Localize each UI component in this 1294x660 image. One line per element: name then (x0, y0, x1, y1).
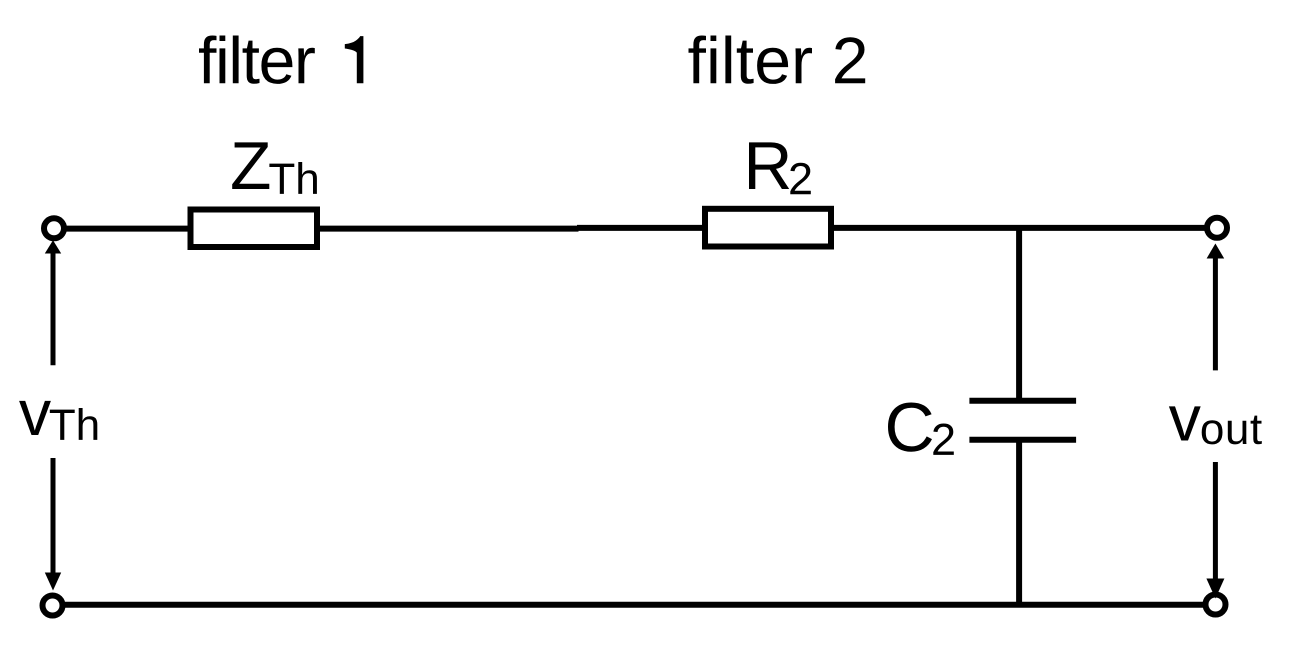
resistor R2 body (705, 209, 831, 247)
arrow vTh upper shaft (51, 253, 56, 366)
arrow vTh upper head (45, 240, 61, 253)
label filter 2 (689, 36, 866, 84)
label vout (1169, 406, 1262, 444)
arrow vTh lower head (45, 573, 61, 591)
label ZTh (232, 142, 317, 194)
label C2 (888, 403, 954, 455)
terminal top-right (1207, 218, 1227, 238)
arrow vout lower shaft (1213, 462, 1218, 580)
arrow vout lower head (1206, 579, 1224, 599)
wire bottom rail (62, 602, 1207, 608)
arrow vTh lower shaft (51, 458, 56, 574)
arrow vout upper shaft (1213, 257, 1218, 370)
wire capacitor bottom lead (1016, 440, 1022, 605)
terminal bottom-left (43, 596, 63, 616)
label R2 (749, 142, 811, 194)
label vTh (19, 401, 97, 440)
wire mid node to R2 (577, 225, 705, 231)
label filter 1 (199, 36, 363, 84)
resistor ZTh body (191, 210, 318, 248)
arrow vout upper head (1207, 244, 1225, 259)
wire R2 to output node (831, 225, 1207, 231)
capacitor C2 bottom plate (969, 437, 1076, 443)
terminal top-left (44, 218, 64, 238)
terminal bottom-right (1206, 595, 1226, 615)
wire ZTh to mid node (317, 226, 579, 232)
wire capacitor top lead (1016, 228, 1022, 401)
wire top-left (input to ZTh) (64, 226, 191, 232)
capacitor C2 top plate (969, 398, 1076, 404)
